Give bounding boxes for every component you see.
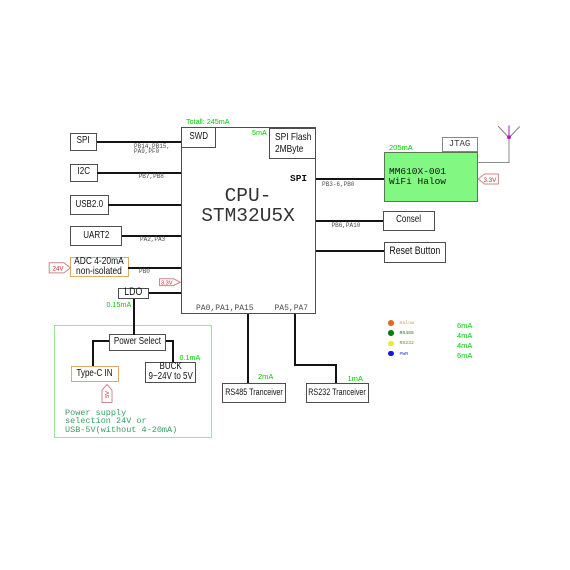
svg-text:24V: 24V (53, 265, 65, 272)
svg-text:3.3V: 3.3V (161, 281, 173, 287)
svg-text:3.3V: 3.3V (484, 177, 498, 184)
